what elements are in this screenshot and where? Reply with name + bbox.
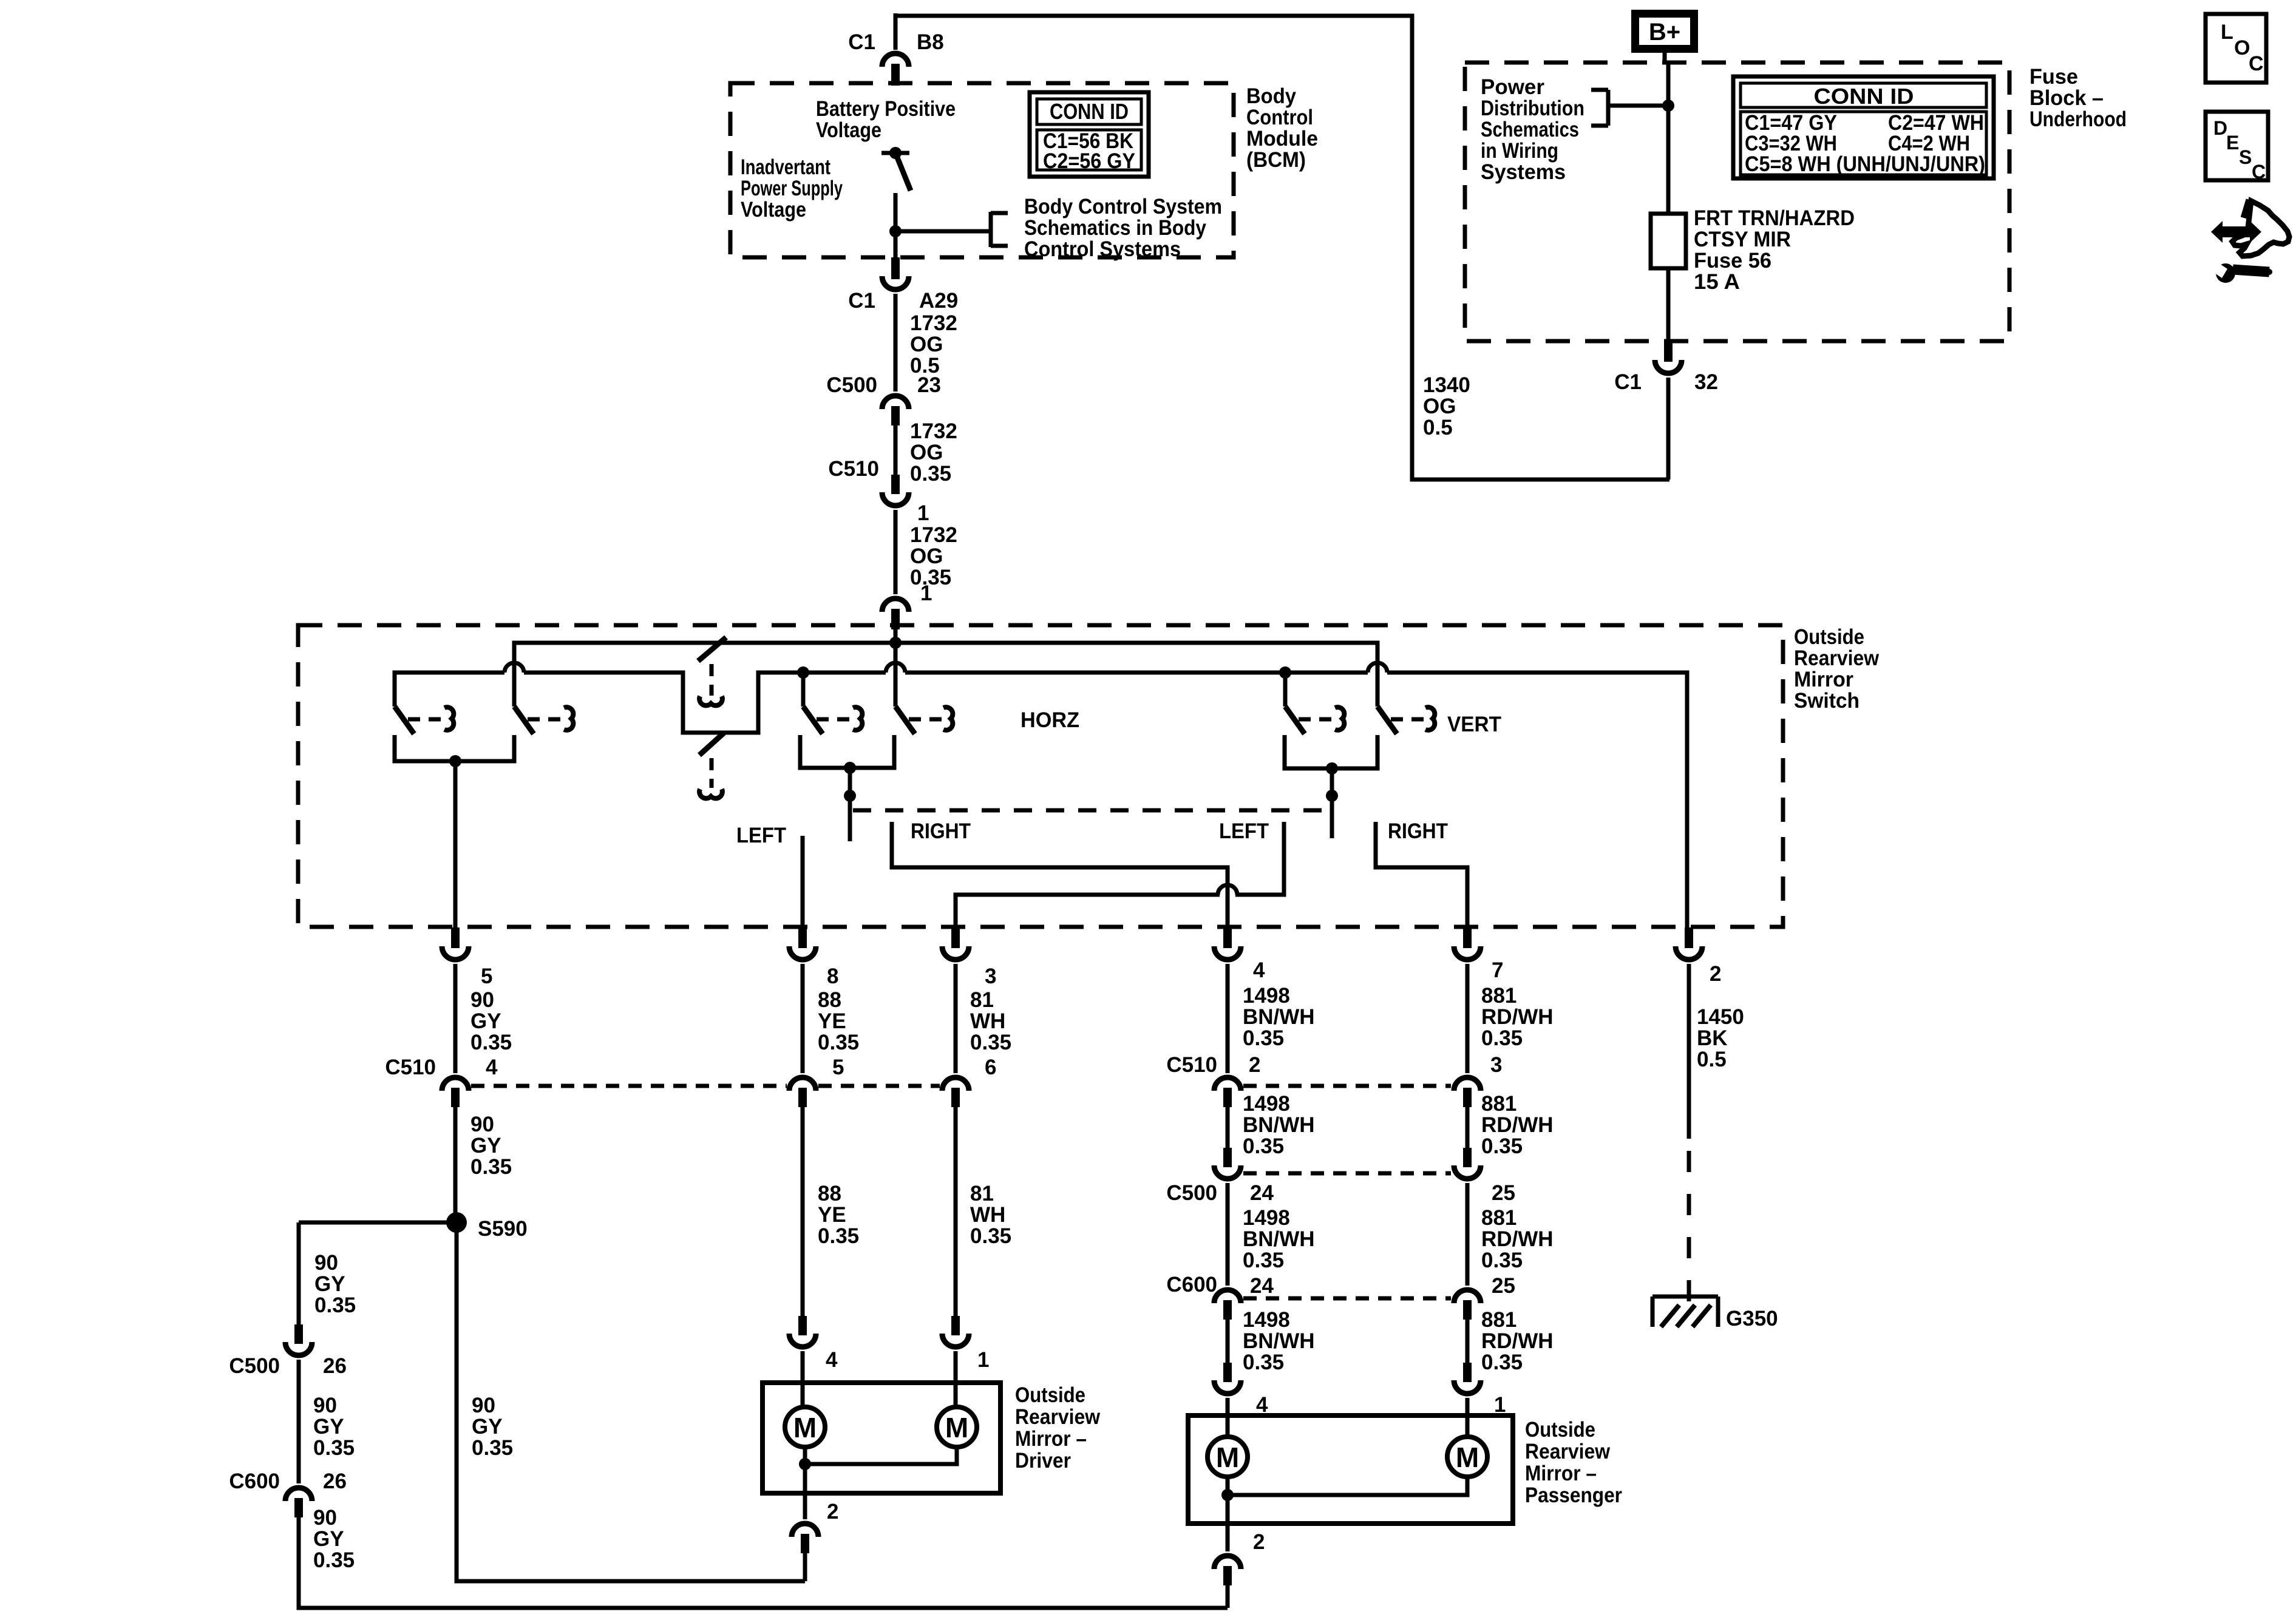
svg-text:OG: OG bbox=[910, 441, 943, 464]
svg-text:C: C bbox=[2252, 161, 2266, 183]
svg-text:OG: OG bbox=[1423, 395, 1456, 418]
svg-text:881: 881 bbox=[1481, 984, 1517, 1008]
svg-text:3: 3 bbox=[1490, 1053, 1502, 1077]
svg-text:81: 81 bbox=[970, 1182, 994, 1205]
svg-text:0.35: 0.35 bbox=[818, 1031, 859, 1054]
svg-text:0.35: 0.35 bbox=[470, 1155, 512, 1179]
svg-text:25: 25 bbox=[1492, 1274, 1515, 1298]
svg-text:YE: YE bbox=[818, 1009, 846, 1033]
svg-text:C510: C510 bbox=[385, 1056, 436, 1079]
svg-text:Outside: Outside bbox=[1015, 1383, 1085, 1407]
svg-text:2: 2 bbox=[1253, 1530, 1265, 1554]
svg-text:Battery Positive: Battery Positive bbox=[816, 97, 956, 121]
svg-text:C1: C1 bbox=[1614, 370, 1642, 394]
svg-text:CTSY MIR: CTSY MIR bbox=[1694, 228, 1791, 251]
svg-text:OG: OG bbox=[910, 333, 943, 356]
svg-text:Mirror –: Mirror – bbox=[1525, 1462, 1597, 1485]
svg-text:Body Control System: Body Control System bbox=[1024, 195, 1222, 219]
svg-text:24: 24 bbox=[1250, 1274, 1274, 1298]
svg-text:90: 90 bbox=[313, 1394, 337, 1417]
svg-text:0.35: 0.35 bbox=[1243, 1134, 1284, 1158]
svg-text:G350: G350 bbox=[1726, 1307, 1778, 1331]
svg-text:C1: C1 bbox=[848, 289, 875, 313]
svg-text:0.35: 0.35 bbox=[1481, 1026, 1523, 1050]
svg-text:OG: OG bbox=[910, 544, 943, 568]
svg-text:0.5: 0.5 bbox=[1697, 1048, 1727, 1071]
svg-text:Inadvertant: Inadvertant bbox=[741, 155, 830, 179]
svg-text:Passenger: Passenger bbox=[1525, 1483, 1622, 1507]
svg-text:BN/WH: BN/WH bbox=[1243, 1005, 1315, 1029]
svg-text:Voltage: Voltage bbox=[816, 118, 881, 142]
svg-text:1340: 1340 bbox=[1423, 373, 1470, 397]
svg-text:GY: GY bbox=[313, 1415, 344, 1439]
svg-text:WH: WH bbox=[970, 1009, 1005, 1033]
svg-text:0.35: 0.35 bbox=[314, 1293, 356, 1317]
svg-text:24: 24 bbox=[1250, 1181, 1274, 1205]
svg-text:Rearview: Rearview bbox=[1015, 1405, 1101, 1429]
svg-text:7: 7 bbox=[1492, 958, 1503, 982]
svg-text:C5=8 WH (UNH/UNJ/UNR): C5=8 WH (UNH/UNJ/UNR) bbox=[1745, 152, 1985, 176]
svg-text:2: 2 bbox=[1249, 1053, 1260, 1077]
svg-text:88: 88 bbox=[818, 1182, 841, 1205]
svg-text:RD/WH: RD/WH bbox=[1481, 1005, 1554, 1029]
svg-text:Schematics: Schematics bbox=[1481, 118, 1579, 141]
svg-text:Outside: Outside bbox=[1794, 625, 1864, 649]
svg-text:S: S bbox=[2239, 146, 2252, 168]
svg-text:90: 90 bbox=[313, 1506, 337, 1530]
svg-text:in Wiring: in Wiring bbox=[1481, 139, 1558, 163]
svg-text:Schematics in Body: Schematics in Body bbox=[1024, 216, 1206, 240]
svg-text:Control: Control bbox=[1246, 106, 1313, 129]
svg-text:Fuse: Fuse bbox=[2029, 65, 2078, 89]
svg-text:Mirror: Mirror bbox=[1794, 668, 1853, 691]
svg-text:GY: GY bbox=[470, 1134, 501, 1158]
svg-text:VERT: VERT bbox=[1447, 713, 1501, 736]
svg-text:1498: 1498 bbox=[1243, 1092, 1290, 1116]
svg-text:C2=56 GY: C2=56 GY bbox=[1043, 149, 1135, 173]
svg-text:BN/WH: BN/WH bbox=[1243, 1329, 1315, 1353]
svg-text:A29: A29 bbox=[919, 289, 958, 313]
svg-text:BK: BK bbox=[1697, 1026, 1728, 1050]
svg-text:0.35: 0.35 bbox=[1243, 1026, 1284, 1050]
svg-text:26: 26 bbox=[323, 1470, 347, 1493]
svg-text:CONN ID: CONN ID bbox=[1814, 84, 1914, 109]
svg-text:D: D bbox=[2213, 117, 2227, 139]
svg-text:881: 881 bbox=[1481, 1206, 1517, 1230]
svg-text:Driver: Driver bbox=[1015, 1449, 1071, 1473]
svg-text:5: 5 bbox=[481, 964, 492, 988]
svg-text:1498: 1498 bbox=[1243, 1308, 1290, 1332]
svg-text:0.35: 0.35 bbox=[313, 1436, 355, 1460]
svg-text:RIGHT: RIGHT bbox=[1388, 819, 1448, 843]
svg-text:Power Supply: Power Supply bbox=[741, 177, 843, 200]
svg-text:GY: GY bbox=[470, 1009, 501, 1033]
svg-text:YE: YE bbox=[818, 1203, 846, 1227]
svg-text:C500: C500 bbox=[826, 373, 877, 397]
svg-text:1732: 1732 bbox=[910, 311, 957, 335]
svg-text:M: M bbox=[793, 1412, 817, 1443]
svg-text:RD/WH: RD/WH bbox=[1481, 1113, 1554, 1137]
svg-text:M: M bbox=[1216, 1442, 1239, 1473]
svg-text:Rearview: Rearview bbox=[1525, 1440, 1611, 1463]
svg-text:Power: Power bbox=[1481, 75, 1544, 99]
svg-text:1498: 1498 bbox=[1243, 984, 1290, 1008]
svg-text:O: O bbox=[2234, 36, 2250, 59]
svg-text:B8: B8 bbox=[917, 30, 944, 54]
svg-text:GY: GY bbox=[314, 1272, 345, 1296]
svg-text:0.35: 0.35 bbox=[1481, 1249, 1523, 1272]
svg-text:881: 881 bbox=[1481, 1092, 1517, 1116]
svg-text:RD/WH: RD/WH bbox=[1481, 1227, 1554, 1251]
svg-text:0.35: 0.35 bbox=[470, 1031, 512, 1054]
svg-text:5: 5 bbox=[832, 1056, 844, 1079]
svg-text:26: 26 bbox=[323, 1354, 347, 1378]
svg-text:M: M bbox=[945, 1412, 968, 1443]
svg-text:GY: GY bbox=[313, 1527, 344, 1551]
svg-text:0.35: 0.35 bbox=[1481, 1351, 1523, 1374]
svg-text:M: M bbox=[1456, 1442, 1479, 1473]
svg-text:4: 4 bbox=[826, 1348, 838, 1372]
svg-text:(BCM): (BCM) bbox=[1246, 148, 1306, 172]
svg-text:3: 3 bbox=[985, 964, 996, 988]
svg-text:0.35: 0.35 bbox=[818, 1224, 859, 1248]
svg-text:FRT TRN/HAZRD: FRT TRN/HAZRD bbox=[1694, 206, 1855, 230]
svg-text:90: 90 bbox=[314, 1251, 338, 1275]
svg-text:C500: C500 bbox=[229, 1354, 280, 1378]
svg-text:25: 25 bbox=[1492, 1181, 1515, 1205]
svg-text:C600: C600 bbox=[229, 1470, 280, 1493]
svg-text:1498: 1498 bbox=[1243, 1206, 1290, 1230]
svg-text:0.35: 0.35 bbox=[970, 1224, 1011, 1248]
svg-text:B+: B+ bbox=[1649, 19, 1680, 46]
svg-text:1732: 1732 bbox=[910, 523, 957, 547]
svg-text:0.35: 0.35 bbox=[1481, 1134, 1523, 1158]
svg-text:1450: 1450 bbox=[1697, 1005, 1744, 1029]
svg-text:1: 1 bbox=[920, 581, 932, 605]
svg-text:C: C bbox=[2249, 52, 2264, 75]
svg-text:RIGHT: RIGHT bbox=[911, 819, 971, 843]
svg-text:Fuse 56: Fuse 56 bbox=[1694, 249, 1771, 273]
svg-text:1: 1 bbox=[917, 501, 929, 525]
svg-text:0.35: 0.35 bbox=[313, 1548, 355, 1572]
svg-text:C510: C510 bbox=[828, 457, 879, 481]
svg-text:Body: Body bbox=[1246, 84, 1297, 108]
svg-text:HORZ: HORZ bbox=[1021, 708, 1079, 732]
svg-text:WH: WH bbox=[970, 1203, 1005, 1227]
svg-text:L: L bbox=[2221, 21, 2233, 44]
svg-text:23: 23 bbox=[917, 373, 941, 397]
svg-text:BN/WH: BN/WH bbox=[1243, 1113, 1315, 1137]
svg-text:Systems: Systems bbox=[1481, 160, 1566, 184]
svg-text:Distribution: Distribution bbox=[1481, 97, 1584, 120]
svg-text:Underhood: Underhood bbox=[2029, 107, 2127, 131]
svg-text:4: 4 bbox=[486, 1056, 498, 1079]
svg-text:32: 32 bbox=[1694, 370, 1718, 394]
svg-text:Block –: Block – bbox=[2029, 86, 2104, 110]
svg-text:90: 90 bbox=[470, 988, 494, 1012]
svg-text:6: 6 bbox=[985, 1056, 996, 1079]
svg-text:Module: Module bbox=[1246, 127, 1318, 151]
svg-text:RD/WH: RD/WH bbox=[1481, 1329, 1554, 1353]
svg-text:0.5: 0.5 bbox=[1423, 416, 1453, 439]
svg-text:0.35: 0.35 bbox=[1243, 1351, 1284, 1374]
svg-text:0.35: 0.35 bbox=[910, 462, 951, 486]
svg-text:0.35: 0.35 bbox=[970, 1031, 1011, 1054]
svg-text:LEFT: LEFT bbox=[736, 824, 786, 847]
svg-text:S590: S590 bbox=[478, 1217, 528, 1241]
svg-text:Control Systems: Control Systems bbox=[1024, 237, 1181, 261]
svg-text:C1: C1 bbox=[848, 30, 875, 54]
svg-text:1732: 1732 bbox=[910, 419, 957, 443]
svg-text:Rearview: Rearview bbox=[1794, 646, 1880, 670]
svg-text:0.35: 0.35 bbox=[1243, 1249, 1284, 1272]
svg-text:1: 1 bbox=[977, 1348, 989, 1372]
svg-text:90: 90 bbox=[470, 1113, 494, 1136]
svg-text:CONN ID: CONN ID bbox=[1050, 99, 1129, 124]
svg-text:E: E bbox=[2226, 132, 2239, 154]
svg-text:15 A: 15 A bbox=[1694, 270, 1740, 294]
svg-text:C600: C600 bbox=[1166, 1273, 1217, 1297]
svg-text:GY: GY bbox=[472, 1415, 503, 1439]
svg-text:C500: C500 bbox=[1166, 1181, 1217, 1205]
svg-text:881: 881 bbox=[1481, 1308, 1517, 1332]
svg-text:4: 4 bbox=[1253, 958, 1265, 982]
svg-text:2: 2 bbox=[827, 1500, 838, 1524]
svg-text:C510: C510 bbox=[1166, 1053, 1217, 1077]
svg-text:0.35: 0.35 bbox=[472, 1436, 513, 1460]
svg-text:BN/WH: BN/WH bbox=[1243, 1227, 1315, 1251]
svg-text:LEFT: LEFT bbox=[1219, 819, 1269, 843]
svg-text:81: 81 bbox=[970, 988, 994, 1012]
svg-text:Mirror –: Mirror – bbox=[1015, 1427, 1087, 1451]
svg-text:Voltage: Voltage bbox=[741, 198, 806, 222]
svg-text:88: 88 bbox=[818, 988, 841, 1012]
svg-text:Switch: Switch bbox=[1794, 689, 1860, 713]
svg-text:Outside: Outside bbox=[1525, 1418, 1595, 1442]
svg-text:2: 2 bbox=[1710, 962, 1721, 986]
svg-text:90: 90 bbox=[472, 1394, 495, 1417]
svg-text:8: 8 bbox=[827, 964, 838, 988]
